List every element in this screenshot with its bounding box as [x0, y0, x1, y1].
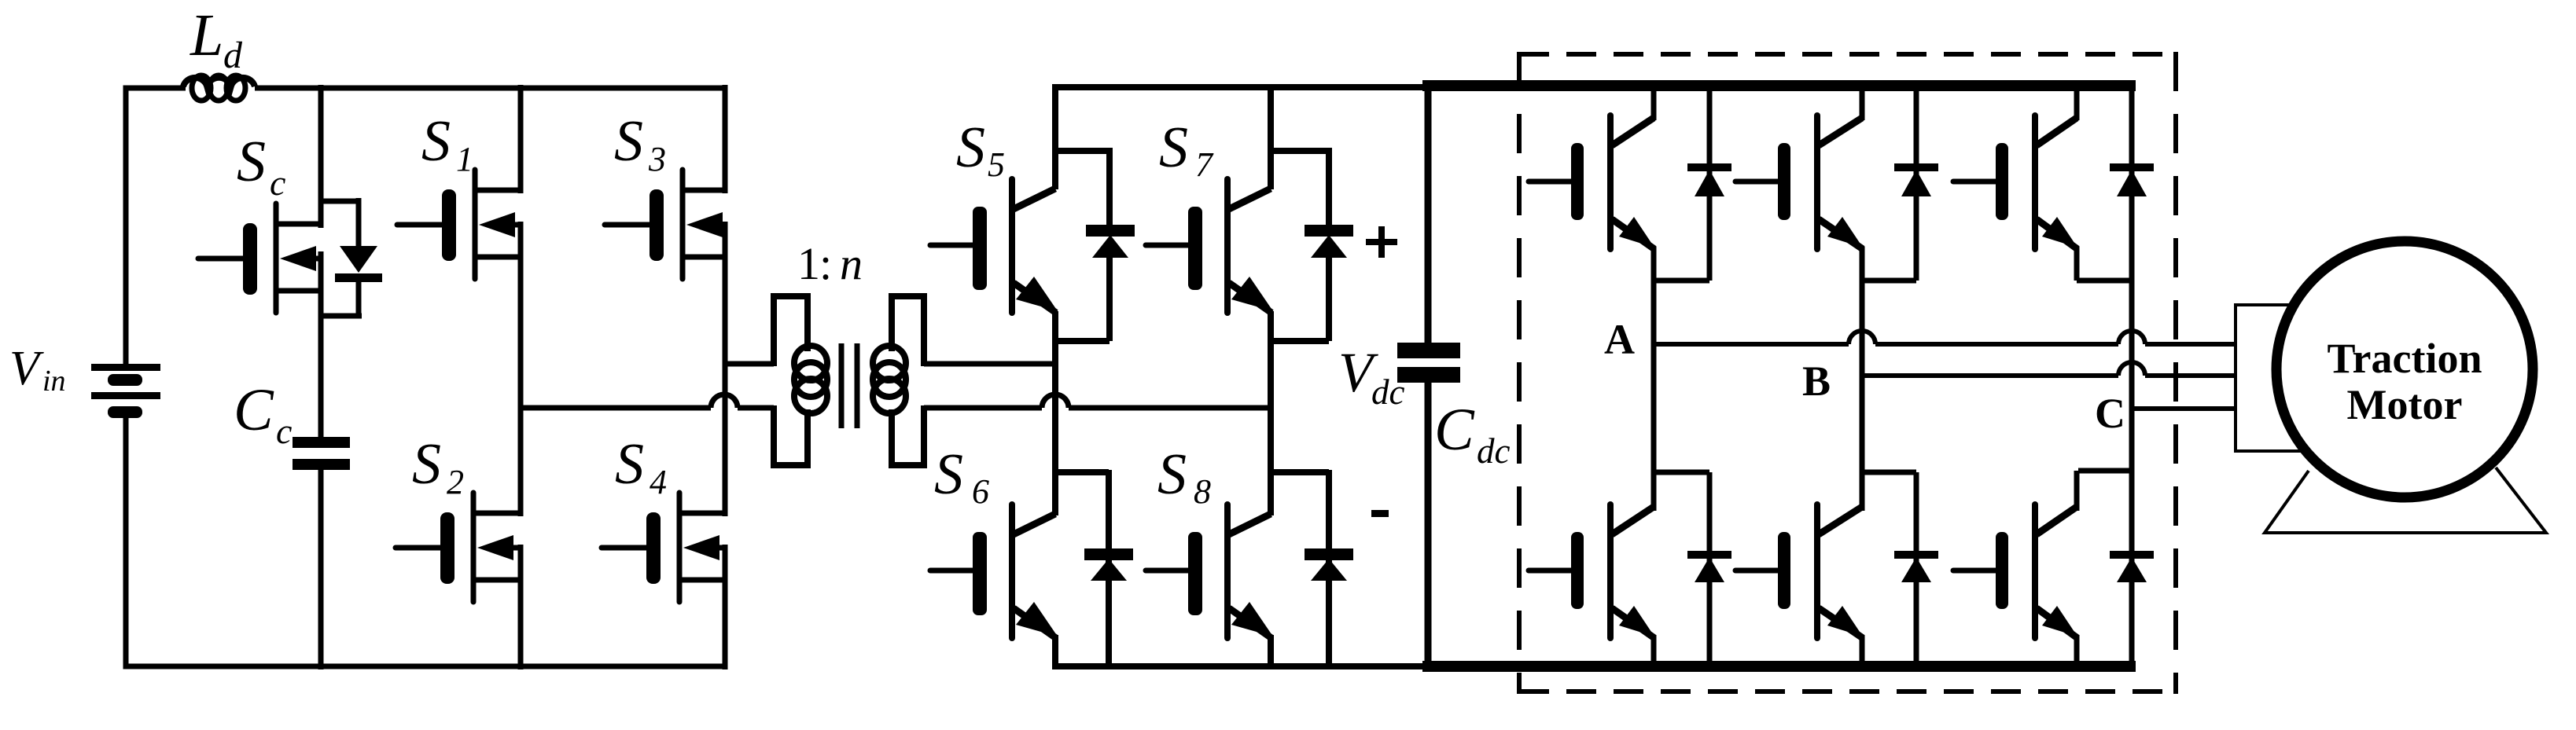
wire phase B hop over C leg [2118, 362, 2145, 376]
switch S8 emitter lead [1229, 608, 1271, 638]
svg-text:in: in [42, 365, 66, 398]
switch S7 emitter lead [1229, 283, 1271, 313]
svg-text:S: S [1157, 442, 1187, 507]
wire inverter C-phase lower collector stub [2078, 468, 2132, 474]
diode of inverter C-phase lower triangle [2117, 557, 2147, 582]
svg-text:C: C [234, 377, 274, 443]
wire bridge output lower (S1/S2 midpoint to transformer) [521, 405, 711, 411]
wire S1/S2 rail mid [518, 222, 524, 516]
wire phase B to motor [2145, 373, 2237, 378]
svg-text:1: 1 [456, 140, 473, 178]
wire S3/S4 rail lower [723, 545, 728, 669]
switch S3 gate lead [605, 222, 650, 228]
switch S3 channel line [680, 170, 686, 279]
switch S3 drain stub [683, 188, 727, 193]
switch S2 body arrow [477, 535, 513, 560]
switch S2 channel line [471, 493, 477, 602]
wire S6 diode top stub [1055, 469, 1109, 475]
diode of S7 bottom stub [1271, 338, 1329, 344]
switch S7 gate bar [1188, 207, 1202, 290]
switch S7 channel bar [1224, 179, 1231, 313]
switch S6 emitter arrow [1016, 602, 1058, 636]
wire phase C to motor [2132, 406, 2237, 411]
switch S1 gate lead [397, 222, 442, 228]
svg-text:6: 6 [972, 472, 989, 511]
svg-text:Motor: Motor [2347, 381, 2463, 428]
switch S5 channel bar [1009, 179, 1015, 313]
svg-text:S: S [237, 130, 266, 194]
svg-text:S: S [956, 116, 985, 180]
switch S7 emitter arrow [1231, 277, 1273, 311]
inverter A-phase lower IGBT emitter arrow [1619, 606, 1654, 636]
wire middle bottom bus [1053, 663, 1428, 669]
inverter B-phase upper IGBT gate bar [1778, 143, 1790, 220]
wire S5 collector rail [1052, 84, 1058, 189]
wire S8 emitter rail [1268, 635, 1274, 669]
diode of S5 cathode bar [1086, 225, 1135, 237]
wire inverter C-phase upper emitter rail [2074, 247, 2080, 281]
dashed box top [1519, 52, 2177, 57]
inverter B-phase lower IGBT gate bar [1778, 532, 1790, 609]
inverter B-phase upper IGBT emitter arrow [1827, 217, 1863, 248]
transformer core [839, 343, 845, 428]
diode of inverter B-phase lower branch [1914, 472, 1919, 668]
inverter A-phase lower IGBT gate lead [1529, 568, 1571, 574]
switch S5 emitter lead [1014, 283, 1056, 313]
diode of inverter A-phase lower cathode bar [1687, 551, 1731, 559]
svg-text:dc: dc [1477, 431, 1511, 471]
inverter C-phase lower IGBT collector lead [2037, 507, 2077, 534]
switch S5 emitter arrow [1016, 277, 1058, 311]
wire phase A output [1654, 342, 1849, 347]
wire S3/S4 rail mid [723, 222, 728, 516]
wire S5 diode top stub [1055, 148, 1110, 154]
wire Cdc bottom lead [1425, 381, 1432, 669]
diode of S8 branch [1326, 470, 1332, 669]
inverter C-phase lower IGBT gate bar [1996, 532, 2008, 609]
switch S6 gate bar [973, 532, 987, 615]
diode of inverter B-phase upper triangle [1901, 170, 1931, 196]
clamp switch Sc drain stub [276, 222, 323, 227]
diode of inverter A-phase upper branch [1707, 86, 1713, 281]
inverter C-phase upper IGBT gate bar [1996, 143, 2008, 220]
inverter A-phase upper IGBT emitter arrow [1619, 217, 1654, 248]
inverter C-phase lower IGBT channel bar [2032, 504, 2038, 638]
inverter B-phase upper IGBT emitter lead [1819, 219, 1863, 249]
dashed box right [2173, 52, 2178, 694]
wire clamp leg upper [318, 85, 324, 228]
wire S5/S6 leg [1052, 311, 1058, 515]
diode of S7 branch lower [1326, 256, 1332, 341]
wire bridge output upper (S3/S4 midpoint to transformer) [725, 361, 774, 367]
clamp switch Sc gate bar [243, 223, 257, 295]
inverter A-phase upper IGBT gate lead [1529, 179, 1571, 185]
svg-text:S: S [412, 432, 441, 497]
diode of inverter A-phase upper triangle [1695, 170, 1724, 196]
wire middle top bus [1053, 84, 1428, 90]
svg-text:8: 8 [1194, 472, 1211, 511]
battery Vin [91, 364, 160, 371]
diode of inverter C-phase upper triangle [2117, 170, 2147, 196]
wire S1/S2 rail lower [518, 545, 524, 669]
transformer secondary winding [873, 346, 906, 380]
svg-text:d: d [223, 35, 243, 76]
inverter A-phase upper IGBT gate bar [1571, 143, 1584, 220]
diode of inverter C-phase lower cathode bar [2110, 551, 2154, 559]
inverter C-phase lower IGBT gate lead [1953, 568, 1996, 574]
dashed box left [1517, 52, 1522, 694]
inverter B-phase lower IGBT emitter lead [1819, 608, 1863, 638]
inverter A-phase upper IGBT emitter lead [1612, 219, 1654, 249]
inverter B-phase upper IGBT collector lead [1819, 118, 1862, 145]
inverter B-phase upper IGBT channel bar [1814, 116, 1820, 249]
svg-text:V: V [9, 342, 44, 395]
svg-text:S: S [421, 109, 451, 174]
wire inverter C-phase upper diode stub [2077, 278, 2132, 284]
switch S1 drain stub [475, 188, 523, 193]
switch S3 source stub [683, 255, 727, 260]
wire hop over S5/S6 leg [1042, 394, 1069, 408]
wire inverter C-phase lower collector rail [2074, 471, 2080, 511]
motor terminal box [2236, 305, 2314, 451]
transformer secondary bracket lower [892, 405, 924, 465]
wire S7 diode top stub [1271, 148, 1329, 154]
diode of Sc top stub [321, 199, 359, 204]
svg-text:3: 3 [648, 140, 666, 178]
switch S7 collector lead [1229, 189, 1271, 209]
capacitor Cdc [1397, 343, 1460, 358]
svg-text:A: A [1604, 316, 1635, 363]
wire phase A to motor [2145, 342, 2237, 347]
diode of S5 branch lower [1106, 256, 1113, 341]
wire inverter A-phase upper collector rail [1651, 86, 1657, 120]
switch S3 body arrow [686, 212, 723, 237]
wire S6 emitter rail [1052, 635, 1058, 669]
capacitor Cc [293, 437, 350, 448]
diode of S7 branch upper [1326, 148, 1332, 229]
inverter A-phase lower IGBT channel bar [1607, 504, 1614, 638]
switch S8 channel bar [1224, 504, 1231, 638]
svg-text:C: C [1434, 397, 1475, 463]
wire phase A hop over B leg [1849, 331, 1875, 344]
inverter C-phase upper IGBT emitter lead [2037, 219, 2077, 249]
switch S8 emitter arrow [1231, 602, 1273, 636]
svg-text:7: 7 [1195, 145, 1214, 184]
inverter C-phase lower IGBT emitter arrow [2042, 606, 2077, 636]
transformer primary winding [794, 346, 827, 380]
switch S4 gate lead [602, 545, 646, 551]
switch S1 channel line [473, 170, 478, 279]
svg-text:n: n [840, 238, 863, 289]
inverter A-phase lower IGBT collector lead [1612, 507, 1654, 534]
switch S8 gate lead [1146, 568, 1188, 574]
wire secondary lower terminal [924, 405, 1042, 411]
diode of Sc branch upper [356, 198, 362, 248]
diode of S6 branch [1106, 470, 1112, 669]
switch S6 gate lead [930, 568, 973, 574]
svg-text:4: 4 [650, 463, 667, 501]
switch S1 source stub [475, 255, 523, 260]
svg-text:S: S [934, 442, 963, 507]
diode of inverter B-phase lower cathode bar [1894, 551, 1938, 559]
inverter A-phase upper IGBT channel bar [1607, 116, 1614, 249]
wire phase A mid segment [1875, 342, 2118, 347]
svg-text:1: 1 [797, 238, 820, 289]
inductor Ld [183, 78, 255, 86]
inverter A-phase lower IGBT gate bar [1571, 532, 1584, 609]
wire hop to transformer [738, 405, 774, 411]
diode of inverter C-phase upper cathode bar [2110, 163, 2154, 171]
wire S1/S2 rail upper [518, 85, 524, 193]
diode of S5 branch upper [1106, 148, 1113, 229]
switch S2 drain stub [473, 511, 523, 516]
clamp switch Sc source stub [276, 288, 323, 294]
diode of inverter B-phase upper branch [1914, 86, 1919, 281]
svg-text::: : [819, 238, 832, 289]
switch S6 emitter lead [1014, 608, 1056, 638]
wire hop over S3/S4 rail [711, 394, 738, 408]
svg-text:L: L [190, 2, 223, 68]
wire inverter B-phase upper collector rail [1860, 86, 1865, 120]
wire S7 collector rail [1268, 84, 1274, 189]
diode of Sc triangle [340, 246, 377, 273]
switch S5 gate lead [930, 243, 973, 248]
switch S6 channel bar [1009, 504, 1015, 638]
wire B leg (emitter to lower collector) [1860, 247, 1865, 511]
svg-text:S: S [614, 109, 643, 174]
diode of S8 cathode bar [1305, 548, 1353, 560]
wire inverter B-phase upper diode stub [1862, 278, 1916, 284]
diode of S5 bottom stub [1055, 338, 1110, 344]
diode of S8 triangle [1311, 559, 1347, 581]
svg-text:C: C [2095, 390, 2125, 437]
inverter C-phase upper IGBT channel bar [2032, 116, 2038, 249]
diode of S5 triangle [1092, 235, 1128, 258]
wire top bus [255, 86, 727, 91]
inverter C-phase upper IGBT collector lead [2037, 118, 2077, 145]
wire A leg (emitter to lower collector) [1651, 247, 1657, 511]
label - (dc link negative) [1371, 510, 1389, 517]
diode of S6 cathode bar [1084, 548, 1133, 560]
switch S4 body arrow [683, 535, 719, 560]
transformer primary bracket lower [774, 405, 808, 465]
diode of inverter A-phase lower branch [1707, 472, 1713, 668]
wire battery bottom lead / bottom-left corner / bottom bus [126, 413, 727, 666]
inverter C-phase upper IGBT emitter arrow [2042, 217, 2077, 248]
switch S4 source stub [679, 578, 727, 583]
svg-text:S: S [1159, 116, 1188, 180]
switch S7 gate lead [1146, 243, 1188, 248]
wire S7/S8 leg [1268, 311, 1274, 515]
wire inverter B-phase lower emitter rail [1860, 635, 1865, 669]
wire top-left corner / battery top lead [126, 88, 186, 369]
svg-text:S: S [615, 432, 644, 497]
inverter A-phase upper IGBT collector lead [1612, 118, 1654, 145]
inverter B-phase lower IGBT channel bar [1814, 504, 1820, 638]
wire secondary upper terminal [924, 361, 1058, 367]
switch S8 gate bar [1188, 532, 1202, 615]
wire inverter positive bus [1422, 80, 2136, 91]
clamp switch Sc body arrow [280, 246, 316, 271]
wire clamp leg middle [318, 251, 324, 438]
switch S4 gate bar [646, 512, 661, 584]
svg-text:B: B [1802, 358, 1831, 405]
transformer primary bracket upper [774, 296, 808, 366]
wire inverter C-phase lower emitter rail [2074, 635, 2080, 669]
inverter A-phase lower IGBT emitter lead [1612, 608, 1654, 638]
switch S2 gate bar [440, 512, 454, 584]
wire Cdc top lead [1425, 84, 1432, 344]
wire S8 diode top stub [1271, 469, 1329, 475]
wire inverter A-phase lower diode stub [1654, 470, 1709, 475]
switch S4 drain stub [679, 511, 727, 516]
inverter B-phase upper IGBT gate lead [1735, 179, 1778, 185]
wire clamp leg lower [318, 468, 324, 669]
diode of inverter B-phase lower triangle [1901, 557, 1931, 582]
svg-text:2: 2 [447, 463, 464, 501]
switch S6 collector lead [1014, 514, 1055, 534]
motor body circle [2276, 241, 2533, 497]
wire S3/S4 rail upper [723, 85, 728, 193]
svg-text:Traction: Traction [2328, 335, 2482, 382]
diode of Sc cathode bar [335, 273, 382, 282]
switch S5 collector lead [1014, 189, 1055, 209]
dashed box bottom [1519, 689, 2177, 694]
diode of Sc branch lower [356, 280, 362, 318]
inverter B-phase lower IGBT collector lead [1819, 507, 1862, 534]
diode of inverter A-phase lower triangle [1695, 557, 1724, 582]
switch S2 gate lead [396, 545, 440, 551]
motor stand [2265, 468, 2546, 533]
diode of Sc bottom stub [321, 314, 362, 319]
transformer secondary bracket upper [892, 296, 924, 366]
svg-text:c: c [270, 163, 285, 203]
diode of inverter B-phase upper cathode bar [1894, 163, 1938, 171]
inverter C-phase upper IGBT gate lead [1953, 179, 1996, 185]
diode of S6 triangle [1091, 559, 1127, 581]
clamp switch Sc channel line [274, 204, 279, 313]
diode of S7 cathode bar [1305, 225, 1353, 237]
switch S1 gate bar [442, 189, 456, 261]
inverter B-phase lower IGBT emitter arrow [1827, 606, 1863, 636]
inverter C-phase lower IGBT emitter lead [2037, 608, 2077, 638]
switch S1 body arrow [479, 212, 515, 237]
wire C leg on diode branch [2129, 86, 2135, 669]
switch S5 gate bar [973, 207, 987, 290]
wire phase B output [1862, 373, 2118, 378]
diode of inverter A-phase upper cathode bar [1687, 163, 1731, 171]
label + (dc link positive) [1366, 239, 1397, 245]
clamp switch Sc gate lead [198, 256, 243, 262]
wire secondary lower to S7/S8 leg [1069, 405, 1274, 411]
switch S2 source stub [473, 578, 523, 583]
wire phase A hop over C leg [2118, 331, 2145, 344]
switch S3 gate bar [650, 189, 664, 261]
switch S4 channel line [677, 493, 683, 602]
wire inverter C-phase upper collector rail [2074, 86, 2080, 120]
wire inverter B-phase lower diode stub [1862, 470, 1916, 475]
svg-text:c: c [276, 411, 292, 451]
diode of S7 triangle [1311, 235, 1347, 258]
switch S8 collector lead [1229, 514, 1271, 534]
wire inverter negative bus [1422, 661, 2136, 672]
inverter B-phase lower IGBT gate lead [1735, 568, 1778, 574]
svg-text:5: 5 [988, 145, 1005, 184]
wire inverter A-phase lower emitter rail [1651, 635, 1657, 669]
wire inverter A-phase upper diode stub [1654, 278, 1709, 284]
